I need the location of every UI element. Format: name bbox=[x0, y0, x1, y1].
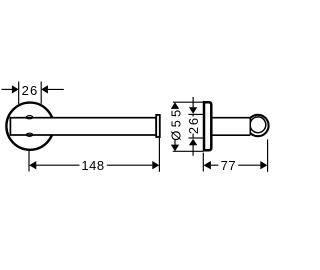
dim 148 extension line left bbox=[28, 151, 30, 172]
arm bar bbox=[10, 118, 156, 135]
screw lens top bbox=[26, 116, 33, 119]
arm bottom edge bbox=[212, 134, 251, 136]
svg-text:26: 26 bbox=[22, 83, 39, 98]
dim 148 extension line right bbox=[158, 138, 160, 172]
dim d55 extension top bbox=[173, 101, 204, 103]
screw lens bottom bbox=[26, 133, 33, 136]
dim 26 (ring) extension bottom bbox=[188, 137, 203, 139]
arm side fill bbox=[211, 119, 250, 135]
dim 148 line bbox=[36, 164, 79, 166]
svg-text:77: 77 bbox=[221, 158, 236, 173]
wall rose circle bbox=[6, 103, 53, 150]
dim 26 right arrow bbox=[48, 88, 64, 90]
arm end vertical bbox=[249, 118, 251, 136]
dim 26 (ring) extension top bbox=[188, 113, 203, 115]
svg-text:148: 148 bbox=[81, 158, 104, 173]
arm top edge bbox=[212, 117, 251, 119]
dim d55 arrows bbox=[171, 102, 179, 109]
dim 77 line bbox=[211, 164, 218, 166]
svg-text:26: 26 bbox=[186, 116, 201, 134]
arm end cap bbox=[156, 115, 160, 137]
dim 26 extension line right bbox=[40, 82, 42, 104]
dim d55 line stub bbox=[174, 139, 176, 145]
dim 26 extension line left bbox=[18, 82, 20, 104]
dim 26 (ring) line + arrows bbox=[192, 97, 194, 107]
dim 77 extension left bbox=[202, 153, 204, 172]
ring inner bbox=[250, 117, 266, 133]
dim 77 extension right bbox=[267, 139, 269, 171]
wall plate bbox=[204, 102, 211, 150]
ring outer bbox=[247, 115, 268, 136]
svg-text:Ø55: Ø55 bbox=[169, 107, 184, 141]
dim d55 extension bottom bbox=[173, 150, 204, 152]
dim 26 left arrow bbox=[2, 88, 13, 90]
